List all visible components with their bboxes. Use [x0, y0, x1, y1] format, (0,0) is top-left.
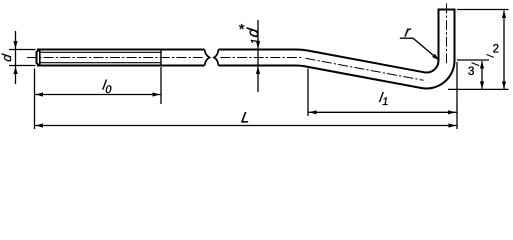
- label d1*: [239, 21, 262, 45]
- dimension L arrow right: [449, 123, 457, 127]
- dimension L line: [35, 125, 458, 127]
- bottom extension line (l2 / l3): [448, 88, 509, 90]
- right extension line (l1 / L): [456, 62, 458, 129]
- dimension d extension line top: [9, 49, 36, 51]
- l3 top extension line: [457, 59, 489, 61]
- dimension l0 arrow left: [36, 92, 44, 96]
- dimension l2 line: [503, 11, 505, 89]
- l2 top extension line: [457, 9, 509, 11]
- dimension l3 line: [481, 61, 483, 89]
- dimension d line: [15, 31, 17, 84]
- l1 left extension line: [307, 69, 309, 117]
- thread chamfer line: [39, 50, 41, 66]
- thread minor diameter bottom line: [41, 62, 162, 64]
- break symbol left chevron: [205, 50, 210, 66]
- rod top edge (threaded section): [37, 49, 205, 51]
- dimension l1 line: [308, 111, 457, 113]
- thread runout line: [160, 49, 162, 67]
- dimension l1 arrow right: [448, 110, 456, 114]
- radius r leader arrowhead: [432, 54, 439, 60]
- svg-text:3: 3: [468, 66, 474, 78]
- dimension d extension line bottom: [9, 65, 36, 67]
- threaded rod left end face: [37, 50, 40, 66]
- radius r leader line: [400, 38, 438, 59]
- dimension d arrow bottom: [13, 67, 17, 75]
- label l2: [486, 44, 499, 59]
- left extension line (l0 / L): [34, 69, 36, 130]
- dimension l3 arrow bottom: [480, 81, 484, 89]
- dimension d1 arrow top: [256, 41, 260, 49]
- hook tip top cap: [438, 9, 456, 11]
- dimension d arrow top: [13, 41, 17, 49]
- dimension l2 arrow top: [502, 11, 506, 19]
- dimension l0 arrow right: [153, 92, 161, 96]
- dimension l0 line: [35, 94, 162, 96]
- dimension L arrow left: [36, 123, 44, 127]
- rod centerline (left of break): [27, 57, 203, 59]
- hook lower/outer edge: [219, 11, 455, 89]
- dimension d1 arrow bottom: [256, 67, 260, 75]
- hook upper/inner edge: [219, 11, 439, 73]
- rod centerline (right of break): [221, 57, 303, 59]
- dimension l3 arrow top: [480, 61, 484, 69]
- hook tip centerline: [446, 4, 448, 65]
- thread end extension line: [160, 67, 162, 104]
- svg-text:2: 2: [493, 44, 499, 56]
- break symbol right chevron: [214, 50, 219, 66]
- thread minor diameter top line: [41, 51, 162, 53]
- dimension d1 line: [257, 20, 259, 92]
- rod bottom edge (threaded section): [37, 65, 205, 67]
- dimension l2 arrow bottom: [502, 81, 506, 89]
- dimension l1 arrow left: [309, 110, 317, 114]
- svg-text:*: *: [239, 21, 245, 38]
- hook diagonal centerline: [306, 58, 424, 80]
- label l3: [468, 62, 482, 78]
